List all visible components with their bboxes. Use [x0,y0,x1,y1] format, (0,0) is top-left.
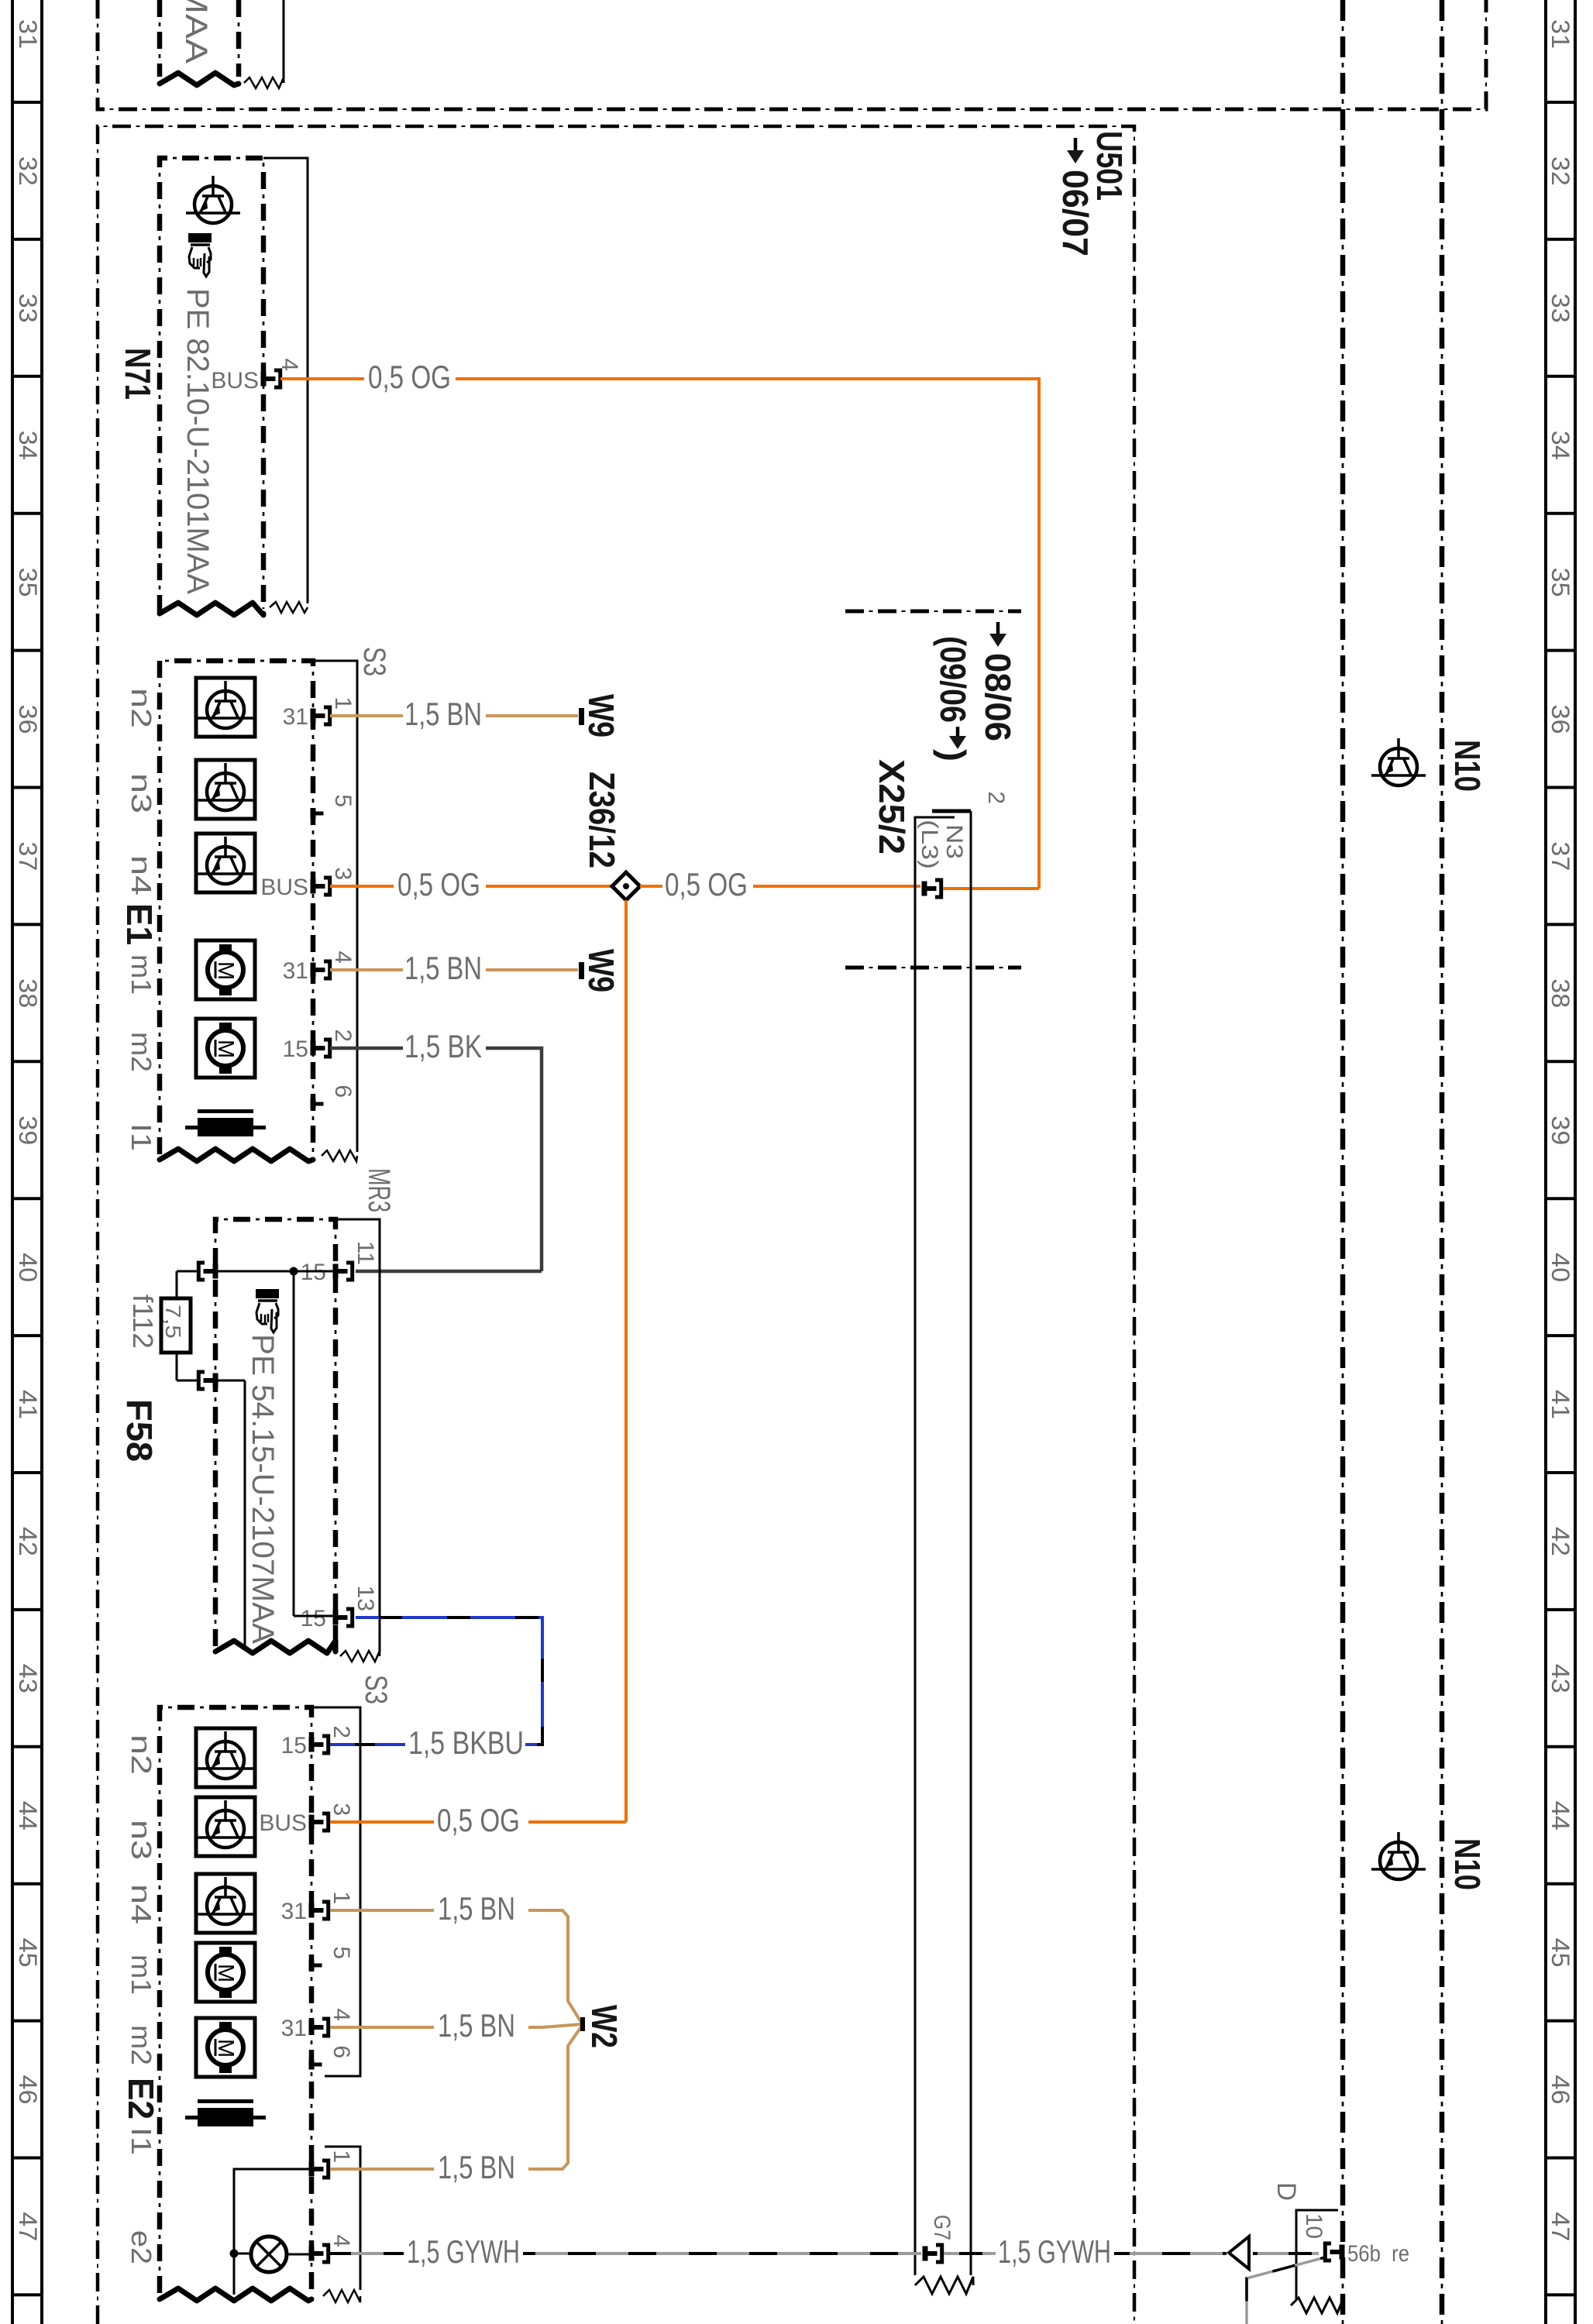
top box connector strip [283,0,285,83]
svg-text:PE 54.15-U-2107MAA: PE 54.15-U-2107MAA [246,1334,280,1644]
pin 1 / 31 of E1 [311,709,316,724]
svg-text:35: 35 [14,568,42,597]
ground W2 [580,2017,585,2031]
svg-text:45: 45 [1547,1938,1574,1968]
svg-text:6: 6 [329,2045,354,2058]
svg-text:46: 46 [1547,2075,1574,2105]
svg-text:1: 1 [329,2150,354,2163]
svg-text:39: 39 [14,1116,42,1145]
wire 1,5 BK pin2 E1 to MR3 pin 11 [330,1047,403,1050]
fuse f112 7,5A [176,1271,178,1380]
svg-text:32: 32 [14,156,42,186]
heater I1 icon [198,1109,253,1113]
svg-text:38: 38 [1547,978,1574,1008]
connector D body [1296,2210,1338,2299]
ruler tick row boundary 37/38 [12,923,42,926]
motor m1 icon [196,940,255,999]
ruler tick row boundary 39/40 [12,1197,42,1200]
svg-text:1,5 BN: 1,5 BN [438,2149,515,2185]
svg-text:m2: m2 [126,2025,157,2065]
svg-text:3: 3 [329,1803,354,1816]
ruler tick row boundary 40/41 [12,1334,42,1337]
pin 5 tick of E2 [309,1961,315,1971]
ground W9 (second) [579,962,584,979]
frame lower region border [98,126,1134,2324]
svg-text:M: M [213,2039,238,2058]
svg-text:31: 31 [283,704,308,730]
MR3 connector strip [335,1219,380,1652]
svg-text:2: 2 [330,1029,356,1042]
svg-text:1,5 BK: 1,5 BK [404,1028,482,1064]
pin 4 / 31 of E1 [311,963,316,978]
svg-text:43: 43 [14,1664,42,1693]
svg-text:41: 41 [1547,1390,1574,1419]
svg-text:n3: n3 [126,1820,157,1860]
pin 1 / 31 of E2 [309,1903,315,1918]
wire 1,5 BN E2 lower pin1 to W2 [330,2168,434,2171]
svg-text:e2: e2 [126,2230,157,2264]
coordinate ruler left band [11,0,14,2324]
wire 0,5 OG continues to corner [456,379,1039,889]
wire 0,5 OG diamond to X25/2 [640,885,662,888]
splice Z36/12 diamond [612,872,640,900]
top cut-off control unit box [157,0,163,77]
label arrow 08/06 [996,622,1000,635]
S3 connector strip (E2 upper) [311,1707,360,2076]
control unit N71 box [160,158,263,612]
S3 connector strip (E1) [313,661,357,1152]
frame upper region (U501 area) border [98,0,1486,109]
transistor n3 icon [196,760,255,819]
svg-text:I1: I1 [126,2127,157,2155]
svg-text:M: M [213,961,238,980]
control unit E2 box [160,1707,311,2293]
svg-text:2: 2 [983,791,1009,804]
pin 2 N3(L3) on X25/2 [922,882,927,896]
svg-text:4: 4 [330,951,356,964]
svg-text:40: 40 [1547,1253,1574,1282]
X25/2 bottom torn edge [915,2277,973,2294]
wire 0,5 OG to E2 BUS [330,1820,434,1824]
pin 1 (lower) of E2 [309,2162,315,2177]
pin 2 / 15 of E1 [311,1041,316,1056]
transistor icon in N71 [194,186,232,223]
svg-text:f112: f112 [127,1294,159,1349]
svg-text:31: 31 [281,2016,307,2041]
ruler tick row boundary 47/48 [12,2293,42,2296]
svg-text:(09/06: (09/06 [933,636,973,723]
svg-text:1,5 GYWH: 1,5 GYWH [407,2233,520,2270]
ruler tick row boundary 42/43 [12,1608,42,1611]
svg-text:1,5 BN: 1,5 BN [404,950,482,986]
svg-text:33: 33 [14,294,42,323]
svg-text:13: 13 [353,1586,378,1611]
svg-text:08/06: 08/06 [978,653,1018,741]
svg-text:W9: W9 [581,949,621,992]
svg-text:m2: m2 [126,1032,157,1072]
svg-text:37: 37 [1547,841,1574,871]
svg-text:Z36/12: Z36/12 [582,772,622,868]
wire 0,5 OG pin to corner [943,887,1039,890]
svg-text:0,5 OG: 0,5 OG [665,866,748,902]
pin 4 (lower) of E2 [309,2247,315,2261]
svg-text:N10: N10 [1447,1838,1488,1890]
pin 6 tick of E1 [311,1099,316,1109]
N10 control unit right border [1440,0,1445,2324]
svg-text:36: 36 [1547,705,1574,734]
svg-text:MAA: MAA [179,0,213,64]
control unit E1 box [160,661,313,1154]
hand pointer icon in MR3 [256,1289,279,1298]
pin 13 / 15 of MR3 [333,1611,339,1625]
svg-text:BUS: BUS [259,1810,307,1836]
N10 control unit left border [1340,0,1346,2324]
svg-text:1,5 GYWH: 1,5 GYWH [998,2233,1111,2270]
svg-text:15: 15 [281,1733,307,1758]
pin 4 (BUS) of N71 [261,372,267,387]
pin 3 / BUS of E2 [309,1815,315,1830]
svg-text:0,5 OG: 0,5 OG [437,1802,520,1838]
svg-text:37: 37 [14,841,42,871]
wire 1,5 BN pin1 E1 [330,714,403,717]
wire 0,5 OG from N71 BUS [280,377,364,380]
wire continuation from 56b re [1247,2257,1325,2324]
svg-text:1: 1 [330,696,356,710]
svg-text:N10: N10 [1447,740,1488,792]
ruler tick row boundary 43/44 [12,1745,42,1748]
svg-text:56b re: 56b re [1347,2241,1409,2267]
svg-text:M: M [213,1964,238,1982]
svg-text:43: 43 [1547,1664,1574,1693]
variant separator bottom [845,966,1021,970]
svg-text:0,5 OG: 0,5 OG [368,359,451,395]
ruler tick row boundary 36/37 [12,786,42,789]
svg-text:31: 31 [283,958,308,984]
N71 connector strip [263,158,308,603]
svg-text:S3: S3 [357,647,391,676]
svg-text:D: D [1271,2182,1301,2201]
E2 lower strip [325,2147,360,2290]
svg-text:n4: n4 [126,1884,157,1924]
wire 1,5 BN E2 pin1 to W2 [330,1909,434,1912]
label arrow 06/07 [1074,138,1078,152]
svg-text:BUS: BUS [211,368,259,394]
svg-text:4: 4 [329,2008,354,2021]
ruler tick row boundary 44/45 [12,1882,42,1886]
svg-text:BUS: BUS [260,875,308,900]
coordinate ruler right band [1544,0,1547,2324]
svg-text:): ) [933,749,973,761]
ruler tick row boundary 38/39 [12,1060,42,1063]
svg-text:G7: G7 [929,2215,955,2240]
svg-text:E1: E1 [119,903,160,945]
svg-text:47: 47 [14,2212,42,2241]
svg-text:W2: W2 [584,2005,624,2048]
wire 1,5 GYWH lamp to X25/2 G7 [330,2252,404,2255]
ruler tick row boundary 34/35 [12,512,42,515]
svg-text:n2: n2 [126,688,157,728]
wire 1,5 BN E2 pin4 to W2 [330,2026,434,2029]
svg-text:6: 6 [330,1085,356,1098]
svg-text:(L3): (L3) [917,820,942,869]
lamp e2 with internal wiring [234,2169,316,2295]
wire 0,5 OG E1 BUS [330,885,394,888]
svg-text:5: 5 [329,1946,354,1959]
svg-text:5: 5 [330,794,356,807]
svg-text:I1: I1 [126,1123,157,1151]
transistor n2 icon [196,678,255,737]
svg-text:n2: n2 [126,1734,157,1775]
pin 11 / 15 of MR3 [333,1264,339,1279]
ruler tick row boundary 41/42 [12,1471,42,1474]
svg-text:36: 36 [14,705,42,734]
pin G7 on X25/2 [923,2247,928,2261]
svg-text:S3: S3 [359,1675,393,1704]
transistor n4 icon [196,834,255,892]
svg-text:34: 34 [1547,431,1574,460]
svg-text:3: 3 [330,867,356,880]
svg-text:4: 4 [329,2234,354,2247]
svg-text:1: 1 [329,1891,354,1904]
svg-text:33: 33 [1547,294,1574,323]
svg-text:1,5 BN: 1,5 BN [438,1890,515,1927]
MR3 internal wiring with junction [218,1270,333,1273]
svg-text:31: 31 [14,19,42,49]
svg-text:m1: m1 [126,954,157,995]
direction arrow on GYWH wire [1229,2236,1249,2269]
pin 6 tick of E2 [309,2060,315,2070]
svg-text:2: 2 [329,1725,354,1738]
pin 4 / 31 of E2 [309,2020,315,2035]
ruler tick row boundary 32/33 [12,238,42,241]
pin 3 / BUS of E1 [311,879,316,894]
svg-text:0,5 OG: 0,5 OG [397,866,480,902]
wire 0,5 OG vertical from diamond down to E2 [624,900,628,1822]
wire 1,5 BN pin4 E1 [330,968,403,971]
svg-text:38: 38 [14,978,42,1008]
svg-text:47: 47 [1547,2212,1574,2241]
svg-text:n4: n4 [126,855,157,896]
svg-text:15: 15 [301,1606,326,1631]
svg-text:44: 44 [1547,1801,1574,1831]
svg-text:32: 32 [1547,156,1574,186]
pin 2 / 15 of E2 [309,1738,315,1752]
ruler tick row boundary 45/46 [12,2020,42,2023]
motor m1 icon (E2) [196,1943,255,2002]
svg-text:PE 82.10-U-2101MAA: PE 82.10-U-2101MAA [181,288,215,594]
heater I1 icon (E2) [198,2099,253,2103]
svg-text:E2: E2 [121,2078,161,2119]
svg-text:X25/2: X25/2 [872,759,912,854]
svg-text:35: 35 [1547,568,1574,597]
svg-text:42: 42 [14,1527,42,1556]
pin (left) to fuse top [213,1264,218,1279]
pin 5 tick of E1 [311,809,316,819]
svg-text:1,5 BN: 1,5 BN [404,696,482,732]
ruler tick row boundary 46/47 [12,2157,42,2160]
ground W9 (top) [579,708,584,725]
motor m2 icon (E2) [196,2018,255,2077]
svg-text:40: 40 [14,1253,42,1282]
svg-text:4: 4 [277,358,302,371]
svg-text:W9: W9 [581,694,621,737]
svg-text:44: 44 [14,1801,42,1831]
svg-text:39: 39 [1547,1116,1574,1145]
wire 1,5 GYWH G7 to D [944,2252,996,2255]
svg-text:n3: n3 [126,773,157,813]
svg-text:41: 41 [14,1390,42,1419]
svg-text:34: 34 [14,431,42,460]
transistor n3 icon (E2) [196,1797,255,1856]
wire 1,5 BKBU [356,1618,542,1745]
ruler tick row boundary 35/36 [12,649,42,652]
svg-text:1,5 BKBU: 1,5 BKBU [408,1724,524,1761]
hand pointer icon in N71 [188,233,212,242]
svg-text:31: 31 [281,1899,307,1924]
transistor n2 icon (E2) [196,1728,255,1787]
motor m2 icon [196,1019,255,1078]
svg-text:1,5 BN: 1,5 BN [438,2007,515,2044]
svg-text:42: 42 [1547,1527,1574,1556]
svg-text:7,5: 7,5 [161,1305,185,1339]
transistor icon N10 bottom [1380,1842,1417,1879]
ruler tick row boundary 31/32 [12,101,42,104]
svg-text:10: 10 [1301,2213,1326,2239]
variant separator top [845,610,1021,614]
svg-text:N3: N3 [941,824,967,859]
relay module MR3 box (F58) [215,1219,335,1646]
svg-text:11: 11 [353,1241,378,1265]
transistor n4 icon (E2) [196,1874,255,1933]
X25/2 top pin tick (pin 2) [932,810,971,813]
transistor icon N10 top [1380,748,1417,786]
svg-text:31: 31 [1547,19,1574,49]
svg-text:MR3: MR3 [362,1168,396,1212]
svg-text:45: 45 [14,1938,42,1968]
pin (left) to fuse bottom [213,1373,218,1388]
svg-text:M: M [213,1040,238,1058]
connector X25/2 body [915,817,955,2275]
svg-text:N71: N71 [118,348,158,400]
svg-text:m1: m1 [126,1954,157,1995]
D torn edge [1291,2298,1344,2313]
svg-text:15: 15 [283,1037,308,1062]
svg-text:F58: F58 [119,1399,160,1462]
svg-text:06/07: 06/07 [1055,170,1096,256]
svg-text:46: 46 [14,2075,42,2105]
ruler tick row boundary 33/34 [12,375,42,378]
